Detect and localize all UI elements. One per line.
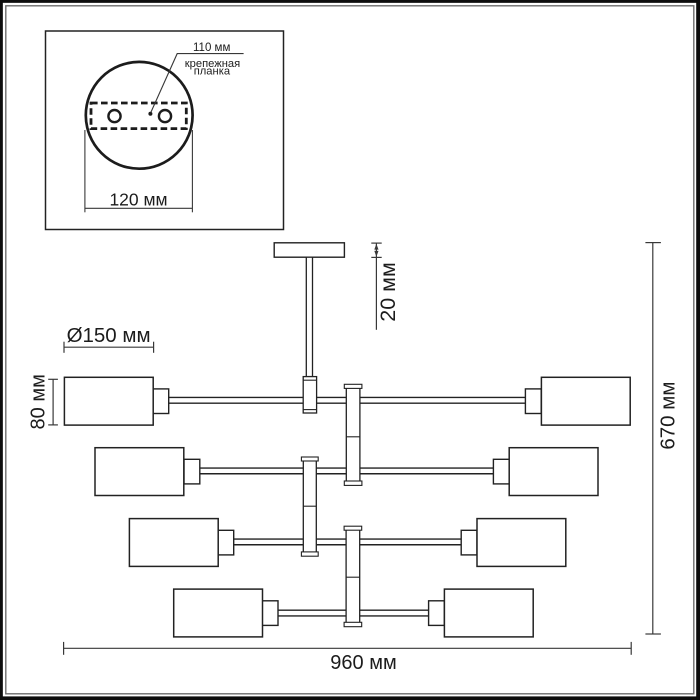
leader line [151,54,244,113]
shade L3 neck [218,530,234,555]
shade R4 [444,589,533,637]
shade R1 [541,377,630,425]
svg-text:20 мм: 20 мм [376,262,400,321]
svg-text:960 мм: 960 мм [330,652,396,674]
connector rod C (level2-level3) [301,457,318,556]
670 mm dimension [652,243,654,634]
shade R4 neck [429,601,445,626]
arm level 4 wires [278,609,429,611]
svg-text:120 мм: 120 мм [109,189,167,209]
outer black frame [696,0,700,700]
shade R2 neck [493,459,509,484]
svg-text:670 мм: 670 мм [657,382,680,450]
hub A on stem [303,377,316,413]
120 mm dimension line [85,207,192,209]
ceiling plate [274,243,344,257]
svg-text:80 мм: 80 мм [27,374,49,429]
svg-text:планка: планка [194,66,231,78]
shade R3 neck [461,530,477,555]
20 mm dimension [375,243,377,330]
screw hole left [108,110,120,122]
shade L3 [129,519,218,567]
shade L1 [64,377,153,425]
shade L2 [95,448,184,496]
svg-text:110 мм: 110 мм [193,42,230,54]
connector rod D (level3-level4) [344,526,362,627]
screw hole right [159,110,171,122]
diameter 150 mm dimension line [64,346,154,348]
arm level 2 wires [200,467,494,469]
center reference dot [148,112,152,116]
80 mm dimension [52,379,54,425]
arm level 1 wires [169,396,526,398]
shade L2 neck [184,459,200,484]
shade L4 neck [262,601,278,626]
canopy circle [86,62,193,169]
120 mm extension lines [84,130,86,212]
inset box [46,31,284,230]
shade L1 neck [153,389,169,414]
svg-text:Ø150 мм: Ø150 мм [67,324,151,347]
connector rod B (level1-level2) [344,384,362,485]
shade R1 neck [525,389,541,414]
stem [306,257,312,376]
mounting plate dashed rect [91,103,186,129]
shade R2 [509,448,598,496]
shade R3 [477,519,566,567]
arm level 3 wires [234,538,462,540]
960 mm dimension [64,647,632,649]
shade L4 [174,589,263,637]
